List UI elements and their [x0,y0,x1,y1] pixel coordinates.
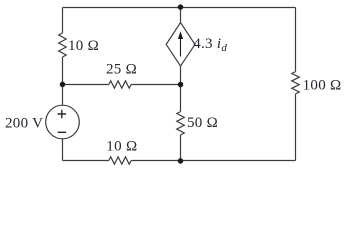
voltage source Vs 200V circle [46,105,80,139]
wire middle horizontal right (R2 to node b) [131,84,180,86]
wire bottom left horizontal [63,160,109,162]
svg-text:100 Ω: 100 Ω [303,77,342,93]
resistor R3 50ohm (middle vertical zigzag) [177,112,185,135]
svg-text:4.3 id: 4.3 id [193,36,227,54]
wire middle horizontal left (node a to R2) [63,84,109,86]
svg-text:10 Ω: 10 Ω [106,139,137,155]
resistor R1 10ohm (left vertical zigzag) [59,33,66,57]
wire node a to source plus terminal [62,85,64,106]
junction node top [178,4,184,10]
wire bottom right horizontal [181,160,296,162]
junction node a (left middle) [60,82,66,88]
wire R3 bottom to bottom node [180,135,182,161]
wire top horizontal [63,7,296,9]
junction node bottom [178,158,184,164]
resistor R2 25ohm (middle horizontal zigzag) [109,81,131,88]
wire left vertical (R1 bottom to node a) [62,57,64,85]
junction node b (center middle) [178,82,184,88]
voltage source plus sign [58,110,67,119]
svg-text:50 Ω: 50 Ω [187,115,218,131]
wire source minus terminal to bottom-left corner [62,139,64,161]
svg-text:10 Ω: 10 Ω [68,38,99,54]
dependent source arrow [180,38,182,57]
wire node b to R3 top [180,85,182,112]
resistor R4 10ohm (bottom horizontal zigzag) [109,157,131,164]
wire dependent source bottom lead to node b [180,66,182,84]
dependent current source diamond [166,23,195,67]
svg-text:25 Ω: 25 Ω [106,62,137,78]
wire dependent source top lead [180,8,182,23]
wire right vertical upper [295,8,297,72]
wire bottom middle horizontal [131,160,180,162]
svg-text:200 V: 200 V [5,116,43,132]
resistor R5 100ohm (right vertical zigzag) [292,72,300,94]
wire right vertical lower [295,94,297,161]
voltage source minus sign [58,131,66,133]
wire left vertical upper (top corner to R1 top) [62,8,64,34]
